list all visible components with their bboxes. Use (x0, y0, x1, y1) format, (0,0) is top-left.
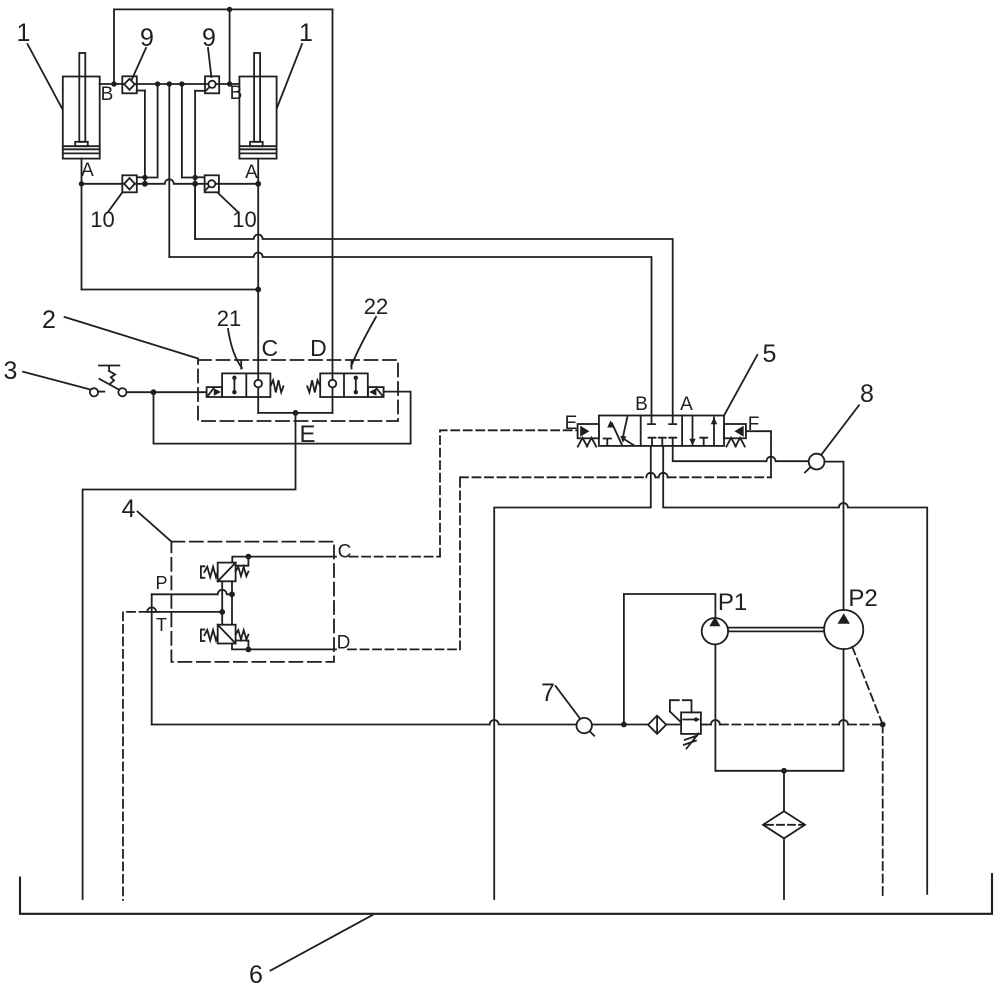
valve 21 cell divider (245, 373, 247, 397)
wire y257 line to valve5 B port (169, 253, 651, 416)
wire valve22 bottom port (332, 397, 334, 413)
svg-text:1: 1 (17, 19, 31, 47)
check valve 8 (805, 454, 824, 473)
wire x157 drop (145, 84, 158, 178)
pilot valve 4 upper right spring (236, 567, 249, 576)
node A-line x144 (142, 181, 148, 187)
node manifold junction (781, 768, 787, 774)
node A-line right (255, 181, 261, 187)
relief valve (670, 700, 701, 748)
svg-text:P: P (155, 573, 167, 593)
pilot valve 4 lower right spring (236, 630, 249, 639)
pump P1 (702, 617, 728, 645)
cylinder 1 left piston rod (79, 53, 85, 142)
check valve 10 right (195, 175, 219, 192)
wire filter to tank (783, 838, 785, 899)
svg-text:21: 21 (217, 306, 241, 331)
wire valve5 A-port to check valve 8 with hop (673, 446, 809, 461)
node junction top frame (227, 7, 232, 12)
wire main line solid with hop (152, 720, 577, 725)
svg-text:2: 2 (42, 306, 56, 334)
wire switch to solenoid 21 (127, 391, 207, 393)
leader for label 21 (228, 329, 242, 368)
svg-text:9: 9 (202, 24, 216, 52)
node B-line left (111, 81, 116, 86)
switch handle spring (109, 371, 115, 384)
svg-text:3: 3 (4, 357, 18, 385)
wire B-line (100, 83, 240, 85)
leader for label 3 (23, 372, 90, 390)
pilot valve 4 lower diagonal (218, 625, 236, 644)
node bypass left junction (142, 175, 147, 180)
wire C loop to upper valve side (236, 557, 249, 566)
node bypass right junction (192, 175, 197, 180)
wire mid riser P side (231, 581, 233, 624)
switch handle T-bar (99, 366, 119, 372)
node A-line x195 (192, 181, 198, 187)
wire valve4 lower bottom port to D (232, 644, 248, 650)
svg-text:A: A (81, 160, 94, 181)
wire valve5 tank port left to tank (494, 446, 651, 899)
drive shaft double line (728, 628, 824, 632)
node T junction (219, 609, 225, 615)
svg-text:D: D (337, 633, 351, 654)
pump P2 (824, 610, 863, 649)
leader for label 4 (138, 512, 172, 542)
wire x169 long drop to y257 (168, 84, 170, 257)
svg-text:6: 6 (249, 961, 263, 987)
valve 22 cell divider (343, 373, 345, 397)
svg-text:B: B (635, 394, 648, 415)
wire after check valve 7 (592, 724, 648, 726)
svg-text:22: 22 (364, 294, 388, 319)
wire F pilot riser (746, 431, 771, 477)
wire D loop to lower valve side (236, 641, 249, 650)
valve block 2 dashed enclosure (198, 360, 398, 421)
svg-text:F: F (748, 414, 760, 435)
filter (763, 811, 805, 838)
spring below F pilot (726, 438, 744, 447)
wire valve5 tank port right to right frame (663, 446, 927, 894)
wire check9L bypass drop (144, 91, 146, 184)
wire mid drop from top frame to right B-line (229, 9, 231, 84)
node feed junction (255, 287, 261, 293)
valve 5 middle cell closed-center stubs (648, 416, 676, 446)
directional valve 5 body (599, 416, 724, 446)
wire left drop from top frame to B-line (113, 9, 115, 84)
svg-text:5: 5 (763, 340, 777, 368)
wire P1 outlet down (714, 644, 716, 770)
wire C line dashed to pilot riser (350, 556, 440, 558)
solenoid of valve 22 (368, 387, 384, 397)
cylinder 1 left piston bands (63, 146, 100, 153)
leader for label 9 left (132, 48, 146, 79)
svg-text:T: T (156, 615, 167, 635)
pilot valve 4 upper diagonal (218, 563, 236, 582)
leader for label 22 (351, 317, 376, 366)
pilot valve 4 upper left spring (201, 566, 218, 578)
wire diamond to relief valve (666, 724, 681, 726)
pilot valve 4 lower left spring (201, 630, 218, 642)
svg-text:1: 1 (299, 19, 313, 47)
svg-text:B: B (230, 83, 243, 104)
wire T line dashed (123, 612, 160, 900)
node P2 control junction (880, 722, 886, 728)
svg-text:P2: P2 (848, 585, 877, 612)
svg-text:E: E (565, 413, 578, 434)
svg-text:4: 4 (122, 495, 136, 523)
valve block 4 dashed enclosure (171, 542, 334, 662)
switch contact circle right (118, 388, 126, 396)
wire D line solid (248, 648, 336, 650)
leader for label 1 left (28, 44, 62, 108)
switch contact circle left (90, 388, 98, 396)
wire y239 line to valve5 A port (195, 184, 673, 416)
wire mid riser T side (221, 581, 223, 624)
cylinder 1 left A port wire (81, 159, 83, 290)
check valve 9 left (122, 76, 145, 93)
wire suction from main line to P1 (624, 594, 716, 725)
spring right of valve 21 (270, 380, 283, 392)
svg-text:C: C (338, 542, 352, 563)
check valve 9 right (195, 76, 219, 93)
wire P line with hop (152, 590, 232, 595)
wire E collector (258, 412, 332, 414)
leader for label 5 (724, 355, 757, 415)
node P junction (229, 591, 235, 597)
wire check valve 8 to pump P2 (825, 462, 844, 610)
svg-text:B: B (101, 84, 114, 105)
wire dashed pilot line to F with hops (460, 476, 771, 478)
leader for label 2 (65, 317, 198, 359)
leader for label 1 right (277, 44, 302, 108)
cylinder 1 right piston bands (239, 146, 276, 153)
valve 5 right cell parallel arrows (689, 417, 717, 446)
cylinder 1 right body (239, 77, 276, 159)
wire top frame horizontal (114, 8, 333, 10)
node E junction (293, 410, 299, 416)
svg-text:D: D (310, 335, 327, 361)
check valve symbol diamond (648, 716, 666, 734)
switch lever (99, 379, 119, 390)
leader for label 7 (556, 686, 581, 719)
valve 5 left cell crossed arrows (604, 417, 634, 445)
wire E return drop (83, 413, 296, 899)
wire dashed drain to tank (882, 725, 884, 900)
solenoid valve 22 body (320, 373, 368, 397)
valve 5 cell dividers (641, 416, 682, 446)
svg-text:A: A (680, 394, 693, 415)
node B-line x181 (179, 81, 184, 86)
wire right drop from top frame to valve 22 D port (332, 9, 334, 373)
wire A-line with hop (82, 179, 259, 184)
svg-text:C: C (261, 335, 278, 361)
switch contact stub (98, 391, 104, 393)
leader for label 8 (821, 405, 859, 454)
wire check9R bypass drop (194, 91, 196, 239)
spring left of valve 22 (307, 380, 320, 392)
wire x181 drop (182, 84, 195, 178)
node C junction (246, 554, 252, 560)
node B-line right (227, 81, 232, 86)
valve 21 right cell check circle (257, 373, 259, 397)
check valve 7 (577, 718, 595, 736)
node A-line left (79, 181, 84, 186)
svg-text:A: A (245, 162, 258, 183)
wire dashed diagonal to P2 (852, 647, 882, 725)
solenoid valve 21 body (222, 373, 270, 397)
leader for label 10 left (108, 193, 122, 212)
wire valve4 upper top port to C (232, 557, 248, 563)
node switch wire junction (151, 389, 157, 395)
leader for label 9 right (208, 48, 211, 77)
pilot head F side (724, 424, 746, 438)
wire dashed riser C to E-pilot (440, 430, 578, 556)
wire manifold to filter (783, 771, 785, 811)
svg-text:7: 7 (541, 679, 555, 707)
wire left feed down-over (82, 289, 259, 291)
cylinder 1 left body (63, 77, 100, 159)
valve 21 left cell closed symbol (233, 378, 235, 392)
wire valve21 bottom port (257, 397, 259, 413)
valve 22 right cell closed symbol (355, 378, 357, 392)
valve 22 left cell check circle (332, 373, 334, 397)
node B-line x169 (167, 81, 172, 86)
node suction junction (621, 722, 627, 728)
pilot valve 4 lower body (218, 625, 236, 644)
solenoid of valve 21 (207, 387, 223, 397)
cylinder 1 right piston rod (254, 53, 260, 142)
cylinder 1 right A port wire (257, 159, 259, 374)
svg-text:10: 10 (90, 207, 114, 232)
svg-text:8: 8 (860, 380, 874, 408)
valve 22 top tick (351, 362, 353, 369)
cylinder 1 right piston plate (250, 142, 263, 146)
wire P2 outlet down (843, 649, 845, 771)
check valve 10 left (122, 175, 145, 192)
svg-text:P1: P1 (718, 589, 747, 616)
valve 21 top tick (240, 362, 242, 369)
spring below E pilot (578, 438, 596, 447)
node B-line x157 (155, 81, 160, 86)
wire loop to solenoid 22 (154, 392, 411, 444)
wire D line dashed to pilot riser (348, 648, 460, 650)
cylinder 1 left piston plate (75, 142, 88, 146)
wire main line dashed to P2 control with hops (701, 724, 706, 726)
wire pump outlet manifold (715, 770, 843, 772)
wire dashed riser D to F-pilot line (459, 477, 461, 649)
tank 6 (20, 874, 992, 914)
leader for label 6 (271, 915, 373, 971)
leader for label 10 right (218, 193, 239, 213)
node D junction (246, 647, 252, 653)
pilot head E side (578, 424, 599, 438)
pilot valve 4 upper body (218, 563, 236, 582)
wire C line solid (248, 556, 336, 558)
wire T line solid with hop (147, 607, 222, 612)
wire P drop to pump line (151, 594, 153, 724)
